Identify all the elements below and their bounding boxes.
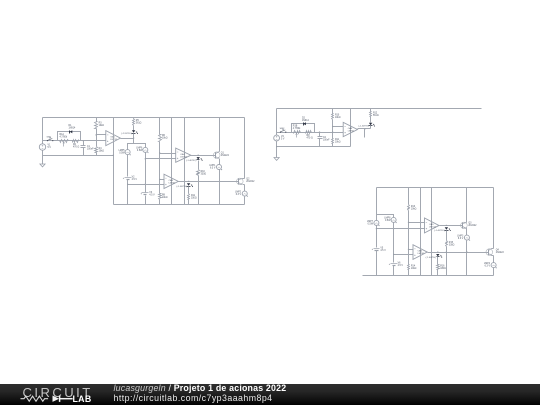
node main-C1 — [83, 140, 84, 141]
svg-text:(-1.4075V): (-1.4075V) — [434, 230, 445, 232]
wire Q3 emitter — [466, 229, 468, 236]
battery V3 — [142, 192, 149, 194]
resistor R10B — [332, 114, 334, 120]
wire supply OA5 — [431, 188, 433, 276]
svg-text:0.5W: 0.5W — [385, 220, 391, 222]
svg-text:100nF: 100nF — [87, 148, 94, 150]
wire OA3 out — [179, 181, 239, 183]
CircuitLab logo — [0, 384, 110, 405]
svg-text:10kΩ: 10kΩ — [162, 138, 168, 140]
wire LED1 to out — [133, 134, 135, 144]
svg-text:10kΩ: 10kΩ — [411, 268, 417, 270]
lamp LMP5 — [125, 150, 130, 155]
wire lamp6 to V3 — [145, 153, 147, 193]
ground cluster2 — [274, 158, 279, 161]
wire LED2 to R10 — [198, 161, 200, 170]
wire V4 to top rail — [276, 109, 278, 136]
wire V1 to top rail — [42, 118, 44, 144]
svg-text:561Ω: 561Ω — [136, 123, 142, 125]
svg-text:10kΩ: 10kΩ — [335, 117, 341, 119]
diode D1 — [70, 130, 73, 133]
lamp LMP4 — [491, 263, 496, 268]
svg-text:4.7/50k: 4.7/50k — [60, 137, 68, 139]
wire lamp5 to V2 — [127, 155, 129, 177]
wire Q4 collector — [492, 248, 494, 250]
wire OA2 minus — [160, 153, 176, 155]
svg-text:6.3 V: 6.3 V — [236, 194, 242, 196]
svg-text:4.7/50k: 4.7/50k — [293, 128, 301, 130]
battery V5 — [374, 248, 380, 250]
wire divider R3R4 — [96, 118, 98, 122]
resistor R4 — [95, 147, 98, 153]
svg-text:4.5 V: 4.5 V — [132, 179, 138, 181]
svg-text:4.5 V: 4.5 V — [380, 250, 386, 252]
wire top rail cluster3 — [377, 187, 494, 189]
svg-text:470 Ω: 470 Ω — [307, 138, 313, 140]
wire top rail cluster1 — [43, 117, 245, 119]
op-amp OA4 — [343, 122, 357, 136]
wire OA1 out — [121, 138, 134, 140]
wire V2 down — [127, 180, 129, 205]
svg-text:(-1.4075V): (-1.4075V) — [358, 126, 369, 128]
svg-text:10kΩ: 10kΩ — [99, 125, 105, 127]
svg-text:1N914: 1N914 — [69, 128, 76, 130]
op-amp OA5 — [425, 218, 440, 233]
capacitor C1 — [83, 141, 85, 146]
wire feedback box cluster2 — [292, 124, 315, 133]
wire supply OA6 — [420, 188, 422, 276]
transistor Q1 — [213, 152, 220, 159]
svg-text:LM741: LM741 — [429, 227, 436, 229]
svg-text:(-1.4075V): (-1.4075V) — [176, 186, 187, 188]
wire LMP4 down — [493, 268, 495, 276]
capacitor C2 — [319, 133, 321, 137]
resistor R10 — [197, 170, 200, 176]
wire LED3 to R11 — [188, 187, 190, 194]
svg-text:LM741: LM741 — [110, 139, 117, 141]
wire R11 down — [188, 200, 190, 205]
transistor Q4 — [486, 249, 493, 256]
wire Q4 emitter — [492, 255, 494, 257]
svg-text:0.5W: 0.5W — [137, 150, 143, 152]
svg-text:2N2222: 2N2222 — [496, 252, 505, 254]
svg-text:0.5W: 0.5W — [119, 153, 125, 155]
LED5 — [445, 227, 448, 229]
wire LMP3 down — [466, 241, 468, 276]
resistor R9 — [306, 131, 312, 134]
svg-text:10kΩ: 10kΩ — [162, 197, 168, 199]
wire R15 down — [446, 247, 448, 276]
wire supply OA1 — [113, 118, 115, 205]
svg-text:470 Ω: 470 Ω — [73, 146, 79, 148]
resistor R11 — [188, 194, 190, 200]
wire OA3 plus — [128, 184, 165, 186]
wire main input cluster1 — [43, 140, 106, 142]
battery V6 — [391, 263, 398, 265]
wire OA3 minus — [160, 179, 165, 181]
wire LED5 to R15 — [446, 231, 448, 241]
resistor R11B — [332, 139, 334, 144]
LED2 — [197, 157, 200, 159]
wire LED4 to out — [370, 126, 372, 129]
svg-text:6.3 V: 6.3 V — [485, 266, 491, 268]
wire divider cluster3 — [408, 188, 410, 205]
svg-text:+: + — [372, 248, 374, 251]
node main-C2 — [319, 132, 320, 133]
LED4 — [369, 123, 372, 125]
svg-text:2N2222: 2N2222 — [221, 155, 230, 157]
LED1 — [132, 130, 135, 132]
wire left branch down — [376, 188, 378, 221]
svg-text:10kΩ: 10kΩ — [335, 142, 341, 144]
potentiometer R1A — [60, 140, 69, 143]
wire OA2 out — [191, 155, 216, 157]
svg-text:1N914: 1N914 — [302, 120, 309, 122]
logo resistor-diode glyph — [21, 396, 49, 401]
wire LED6 to R16 — [437, 257, 439, 265]
svg-text:330Ω: 330Ω — [191, 197, 197, 199]
wire OA6 minus — [409, 249, 414, 251]
wire divider R6R8 — [159, 118, 161, 135]
wire V3 down — [145, 196, 147, 205]
wire bottom rail cluster3 — [363, 275, 494, 277]
lamp LMP7 — [374, 220, 379, 225]
wire OA5 plus — [377, 228, 425, 230]
svg-text:LM741: LM741 — [169, 182, 176, 184]
wire V6 down — [393, 266, 395, 276]
wire OA5 out — [440, 225, 463, 227]
wire bottom rail cluster2 — [277, 146, 351, 148]
switch SW2 — [280, 132, 281, 133]
resistor R12 — [370, 109, 372, 112]
transistor Q2 — [237, 178, 244, 185]
voltage source V4 — [274, 135, 280, 141]
LED6 — [436, 254, 439, 256]
wire OA1 minus — [97, 134, 106, 136]
svg-text:LM741: LM741 — [180, 156, 187, 158]
wire lamp8 to V6 — [393, 223, 395, 263]
svg-text:330Ω: 330Ω — [440, 268, 446, 270]
wire bottom rail cluster1 — [114, 204, 245, 206]
svg-text:SW1: SW1 — [47, 137, 53, 139]
op-amp OA2 — [176, 148, 191, 162]
resistor R15 — [446, 241, 448, 247]
svg-text:LM741: LM741 — [418, 253, 425, 255]
wire supply OA4 — [350, 109, 352, 147]
transistor Q3 — [461, 222, 468, 229]
wire supply OA3 — [171, 118, 173, 205]
wire Q2 emitter — [243, 184, 245, 186]
wire lamp link — [128, 144, 146, 150]
wire LMP1 down — [219, 170, 221, 205]
svg-text:2N2222: 2N2222 — [468, 225, 477, 227]
lamp LMP2 — [242, 191, 247, 196]
svg-text:(-1.4075V): (-1.4075V) — [186, 160, 197, 162]
wire lampAB link — [377, 215, 394, 218]
lamp LMP6 — [143, 147, 148, 152]
svg-text:6.3 V: 6.3 V — [458, 238, 464, 240]
wire Q2 collector — [243, 178, 245, 180]
svg-text:5 V: 5 V — [281, 138, 285, 140]
op-amp OA1 — [106, 131, 121, 146]
svg-text:330Ω: 330Ω — [201, 173, 207, 175]
wire Q3 collector — [466, 188, 468, 223]
lamp LMP1 — [217, 165, 222, 170]
svg-text:4.5 V: 4.5 V — [398, 265, 404, 267]
wire top rail cluster2 — [277, 108, 482, 110]
svg-text:10kΩ: 10kΩ — [99, 150, 105, 152]
svg-text:2N2222: 2N2222 — [246, 181, 255, 183]
wire OA5 minus — [409, 222, 425, 224]
wire R10 down — [198, 176, 200, 205]
ground — [40, 164, 45, 167]
svg-text:LAB: LAB — [73, 394, 92, 404]
svg-text:100nF: 100nF — [323, 139, 330, 141]
lamp LMP8 — [391, 217, 396, 222]
footer bar — [0, 384, 540, 405]
wire V1 to ground — [42, 151, 44, 165]
svg-text:SW2: SW2 — [280, 128, 286, 130]
svg-text:10kΩ: 10kΩ — [411, 208, 417, 210]
switch SW1 — [47, 140, 48, 141]
resistor R16 — [437, 265, 440, 270]
wire supply OA2 — [184, 118, 186, 205]
svg-text:(-1.4075V): (-1.4075V) — [426, 257, 437, 259]
credit text — [114, 384, 287, 402]
svg-text:(-2.2075V): (-2.2075V) — [121, 133, 132, 135]
wire feedback box cluster1 — [58, 132, 81, 141]
svg-text:330Ω: 330Ω — [449, 244, 455, 246]
resistor R6 — [159, 135, 162, 142]
op-amp OA3 — [164, 174, 178, 188]
svg-text:4.5 V: 4.5 V — [149, 195, 155, 197]
wire main input cluster2 — [277, 132, 344, 134]
resistor R5 — [133, 118, 135, 119]
wire OA6 out — [428, 252, 489, 254]
svg-text:5 V: 5 V — [48, 147, 52, 149]
wire V4 to ground — [276, 141, 278, 158]
wire V5 down — [376, 251, 378, 276]
wire OA2 plus — [146, 158, 176, 160]
resistor R3 — [95, 122, 98, 129]
wire R16 down — [437, 270, 439, 276]
diode D2 — [303, 122, 306, 125]
svg-text:LM741: LM741 — [348, 131, 355, 133]
wire OA4 out — [358, 128, 371, 130]
wire Q1 emitter — [219, 159, 221, 165]
resistor R8 — [159, 194, 162, 200]
op-amp OA6 — [413, 245, 427, 260]
resistor R2 — [73, 140, 79, 143]
wire lamp7 to V5 — [376, 226, 378, 248]
wire bottom rail input stage — [43, 155, 114, 157]
wire Q1 collector — [219, 118, 221, 152]
wire LMP2 down — [244, 197, 246, 205]
resistor R14 — [408, 265, 410, 270]
lamp LMP3 — [464, 235, 469, 240]
LED3 — [187, 183, 190, 185]
resistor R13 — [408, 205, 410, 211]
svg-text:6.3 V: 6.3 V — [210, 167, 216, 169]
wire stub OA4 — [364, 129, 366, 138]
battery V2 — [125, 177, 132, 179]
potentiometer R1B — [294, 131, 301, 134]
voltage source V1 — [39, 144, 45, 150]
svg-text:561Ω: 561Ω — [373, 115, 379, 117]
wire OA6 plus — [394, 254, 414, 256]
wire divider cluster2 — [332, 109, 334, 114]
svg-text:0.5W: 0.5W — [368, 223, 374, 225]
wire OA4 minus — [333, 126, 344, 128]
